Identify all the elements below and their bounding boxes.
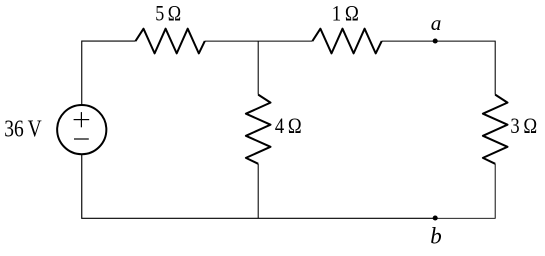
svg-text:5 Ω: 5 Ω (155, 1, 181, 26)
svg-text:4 Ω: 4 Ω (275, 113, 302, 138)
svg-text:b: b (430, 224, 442, 249)
svg-text:36 V: 36 V (4, 116, 42, 143)
svg-text:1 Ω: 1 Ω (332, 1, 359, 26)
svg-text:3 Ω: 3 Ω (510, 113, 537, 138)
svg-text:a: a (431, 11, 442, 35)
